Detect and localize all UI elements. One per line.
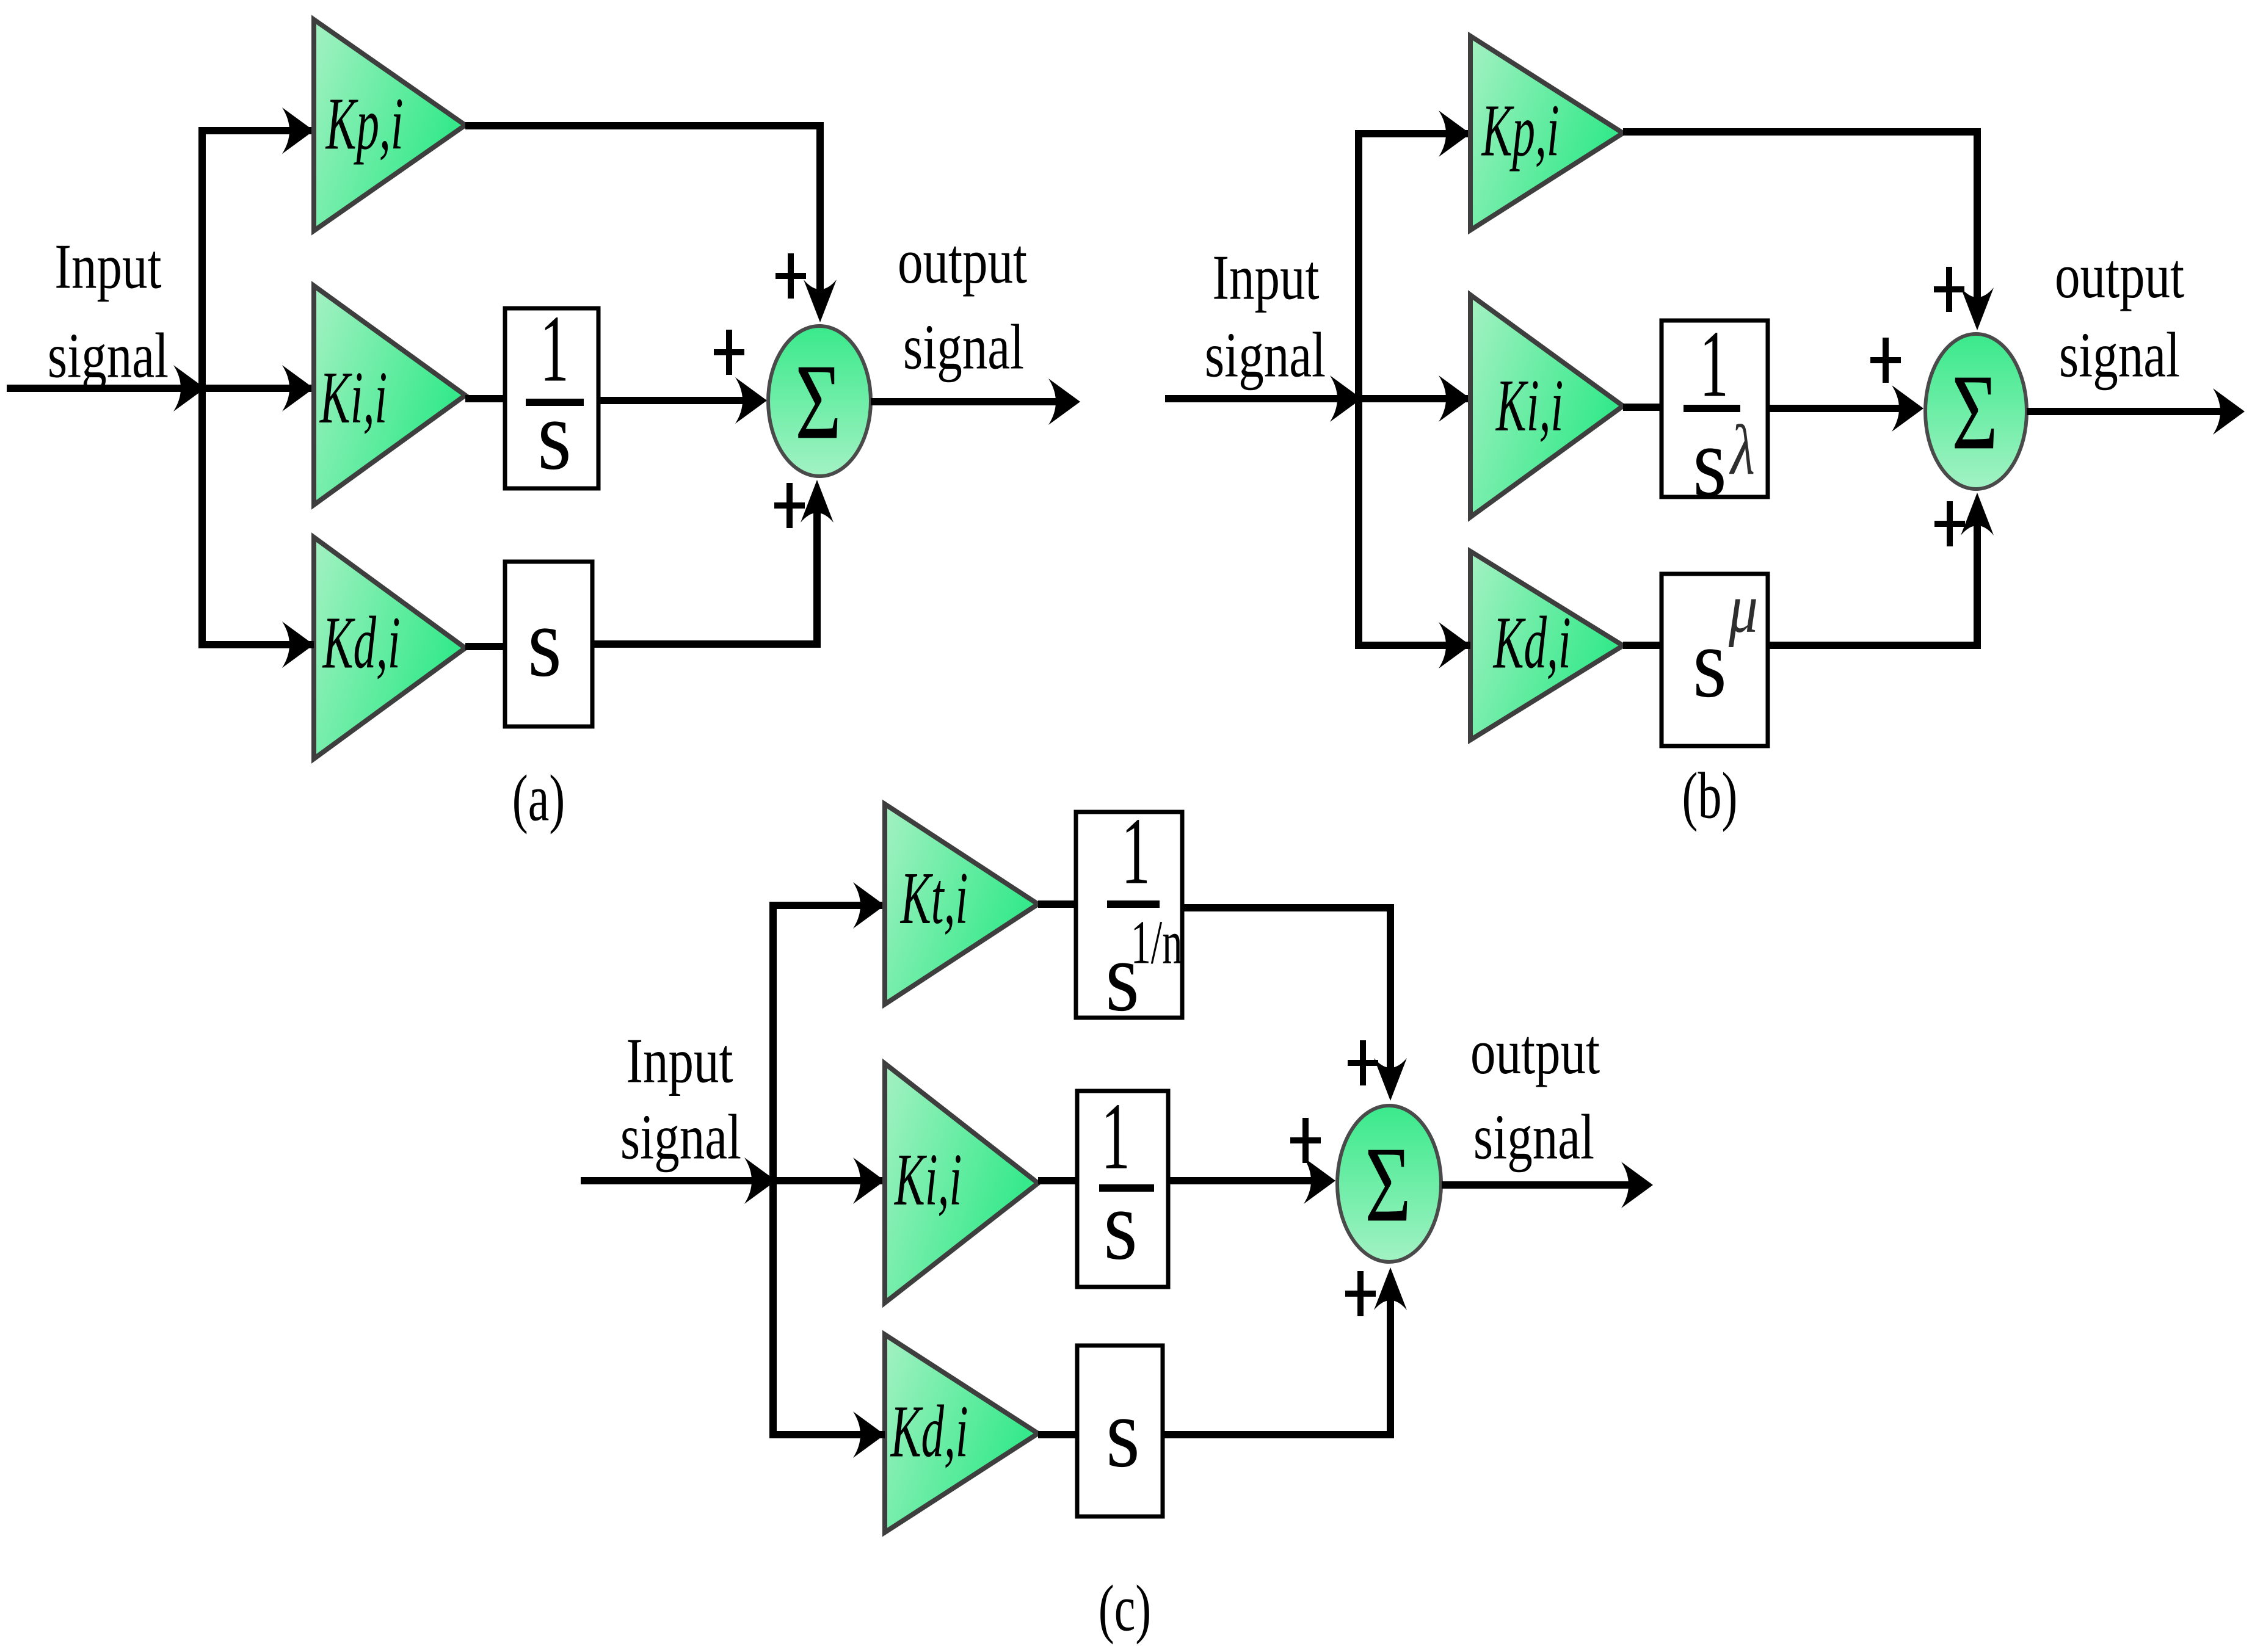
arrowhead: into gain Kd,i (a) [282,621,314,668]
label s of 1/s^lambda (b) [1693,407,1727,518]
svg-text:Input: Input [54,232,161,302]
wire: Kd,i to derivative box (b) [1623,642,1662,649]
svg-text:s: s [1106,1378,1140,1488]
arrowhead: into gain Kd,i (c) [853,1411,885,1458]
wire: bottom branch (a) [198,641,314,648]
wire: branch vertical (b) [1355,134,1362,645]
wire: s^mu to summer (b) [1768,515,1977,645]
svg-text:signal: signal [1205,321,1326,391]
svg-text:Σ: Σ [1365,1125,1411,1244]
svg-text:s: s [1693,608,1727,719]
svg-text:output: output [898,226,1027,297]
integrator block 1/s^lambda (b) [1662,321,1768,497]
plus sign top (a) [775,253,806,299]
arrowhead: into gain Kp,i (a) [282,107,314,154]
svg-text:output: output [1470,1017,1600,1087]
label 1 of 1/s^(1/n) (c) [1121,799,1150,905]
wire: 1/s^lambda to summer (b) [1768,405,1908,412]
svg-text:λ: λ [1729,410,1754,490]
label s of s-block (c) [1106,1378,1140,1488]
label lambda superscript (b) [1729,410,1754,490]
wire: output line (b) [2027,408,2229,415]
wire: bottom branch (c) [769,1431,885,1438]
node label: output signal (b) line1 [2055,241,2184,311]
gain triangle Kt,i (c) [885,804,1038,1004]
label 1 of 1/s (c) [1101,1084,1130,1190]
svg-text:Kd,i: Kd,i [322,601,401,684]
wire: output line (c) [1442,1181,1635,1189]
label 1 of 1/s (a) [540,297,568,402]
arrowhead: input into branch node (c) [744,1157,776,1204]
caption (a) [512,762,565,835]
gain triangle Kd,i (a) [314,537,465,759]
svg-text:signal: signal [48,321,169,391]
gain triangle Kp,i (a) [314,20,465,231]
node label: output signal (a) line1 [898,226,1027,297]
wire: 1/s to summer (a) [598,397,751,404]
wire: Kp,i to summer (a) [465,126,820,300]
svg-text:μ: μ [1728,569,1758,648]
fraction bar of 1/s^lambda (b) [1684,405,1740,412]
integrator block 1/s (c) [1077,1091,1168,1287]
svg-text:1/n: 1/n [1131,908,1183,977]
wire: input line (a) [7,385,314,392]
label 1 of 1/s^lambda (b) [1699,312,1728,418]
gain triangle Kp,i (b) [1470,36,1623,230]
gain triangle Kd,i (c) [885,1335,1038,1532]
svg-text:(b): (b) [1682,759,1738,832]
wire: 1/s to summer (c) [1168,1177,1318,1184]
wire: Kd,i to derivative box (c) [1038,1431,1077,1438]
wire: Kp,i to summer (b) [1623,132,1977,308]
label Kp,i (b) [1481,89,1560,172]
node label: output signal (b) line2 [2059,321,2180,391]
arrowhead: into gain Kt,i (c) [853,882,885,929]
label Kd,i (b) [1492,601,1571,684]
arrowhead: down into summer top (b) [1961,288,1994,330]
svg-text:(a): (a) [512,762,565,835]
arrowhead: output (a) [1048,379,1080,425]
svg-text:Input: Input [1212,243,1319,313]
svg-text:Ki,i: Ki,i [319,357,387,439]
svg-text:s: s [537,380,572,491]
svg-text:Kd,i: Kd,i [890,1390,968,1473]
wire: branch vertical (c) [769,905,777,1435]
gain triangle Ki,i (b) [1470,295,1623,517]
arrowhead: up into summer bottom (a) [801,480,834,523]
caption (c) [1099,1572,1152,1645]
svg-text:s: s [1103,1170,1138,1281]
svg-text:Ki,i: Ki,i [1495,364,1563,447]
summing junction (a) [768,326,871,476]
integrator block 1/s (a) [505,308,598,488]
arrowhead: up into summer bottom (c) [1374,1267,1407,1310]
gain triangle Ki,i (a) [314,286,465,505]
svg-text:Kp,i: Kp,i [325,82,404,165]
label mu superscript (b) [1728,569,1758,648]
plus sign bottom (c) [1345,1271,1376,1316]
derivative block s^mu (b) [1662,574,1768,746]
svg-text:Σ: Σ [1952,352,1998,472]
arrowhead: into gain Ki,i (b) [1439,375,1470,422]
plus sign top (c) [1348,1040,1378,1085]
node label: output signal (a) line2 [903,313,1024,383]
plus sign bottom (a) [774,483,805,528]
node label: Input signal (b) line2 [1205,321,1326,391]
arrowhead: into summer left (c) [1304,1157,1335,1204]
wire: bottom branch (b) [1355,642,1470,649]
node label: Input signal (a) line2 [48,321,169,391]
wire: 1/s^(1/n) to summer (c) [1182,908,1390,1079]
arrowhead: into summer left (a) [735,377,767,424]
svg-text:1: 1 [1121,799,1150,905]
label Ki,i (a) [319,357,387,439]
label Kt,i (c) [899,857,968,940]
svg-text:Ki,i: Ki,i [893,1139,962,1221]
arrowhead: output (c) [1621,1162,1653,1208]
label Kp,i (a) [325,82,404,165]
gain triangle Ki,i (c) [885,1063,1038,1303]
label Kd,i (a) [322,601,401,684]
node label: Input signal (c) line1 [626,1026,733,1096]
derivative block s (c) [1077,1346,1163,1516]
svg-text:Kd,i: Kd,i [1492,601,1571,684]
node label: Input signal (a) line1 [54,232,161,302]
label s of 1/s (c) [1103,1170,1138,1281]
arrowhead: down into summer top (c) [1374,1058,1407,1101]
plus sign left (b) [1870,338,1901,383]
summing junction (b) [1925,334,2027,489]
arrowhead: up into summer bottom (b) [1961,493,1994,535]
svg-text:(c): (c) [1099,1572,1152,1645]
plus sign left (a) [714,330,744,375]
node label: Input signal (b) line1 [1212,243,1319,313]
wire: output line (a) [871,398,1062,405]
label Ki,i (c) [893,1139,962,1221]
svg-text:Input: Input [626,1026,733,1096]
arrowhead: into gain Ki,i (c) [853,1157,885,1204]
gain triangle Kd,i (b) [1470,551,1623,740]
wire: Ki,i to integrator box (a) [465,395,505,402]
label Kd,i (c) [890,1390,968,1473]
fraction bar of 1/s (a) [526,399,584,406]
label s of s-block (a) [528,587,562,698]
svg-text:1: 1 [1699,312,1728,418]
label s of s^mu (b) [1693,608,1727,719]
svg-text:Kp,i: Kp,i [1481,89,1560,172]
svg-text:signal: signal [903,313,1024,383]
svg-text:signal: signal [620,1103,741,1173]
svg-text:Kt,i: Kt,i [899,857,968,940]
derivative block s (a) [505,562,592,726]
wire: Ki,i to integrator box (b) [1623,404,1662,411]
label s of 1/s^(1/n) (c) [1105,922,1139,1032]
wire: Kt,i to box (c) [1038,900,1076,908]
wire: top branch (a) [198,127,314,134]
arrowhead: into gain Ki,i (a) [282,365,314,411]
plus sign bottom (b) [1934,501,1965,546]
node label: Input signal (c) line2 [620,1103,741,1173]
caption (b) [1682,759,1738,832]
wire: top branch (b) [1355,130,1470,137]
wire: input line (c) [581,1177,885,1184]
arrowhead: input into branch node (b) [1330,375,1362,422]
arrowhead: into summer left (b) [1892,385,1923,432]
svg-text:signal: signal [2059,321,2180,391]
label s of 1/s (a) [537,380,572,491]
block 1/s^(1/n) (c) [1076,812,1182,1018]
wire: branch vertical (a) [198,131,206,645]
wire: input line (b) [1165,395,1470,402]
label 1/n superscript (c) [1131,908,1183,977]
fraction bar of 1/s (c) [1099,1184,1154,1192]
svg-text:output: output [2055,241,2184,311]
arrowhead: down into summer top (a) [804,280,837,322]
arrowhead: input into branch node (a) [173,365,205,411]
svg-text:s: s [1693,407,1727,518]
fraction bar of 1/s^(1/n) (c) [1107,900,1160,908]
wire: Ki,i to integrator box (c) [1038,1177,1077,1184]
wire: s-block to summer (c) [1163,1289,1390,1435]
plus sign left (c) [1290,1118,1321,1163]
wire: Kd,i to derivative box (a) [465,643,505,650]
svg-text:s: s [528,587,562,698]
plus sign top (b) [1934,267,1964,312]
svg-text:Σ: Σ [795,342,841,462]
arrowhead: into gain Kd,i (b) [1439,622,1470,668]
label Ki,i (b) [1495,364,1563,447]
arrowhead: output (b) [2213,388,2245,435]
svg-text:signal: signal [1473,1103,1594,1173]
node label: output signal (c) line1 [1470,1017,1600,1087]
summing junction (c) [1337,1106,1441,1262]
wire: s-block to summer (a) [592,502,817,644]
wire: top branch (c) [769,902,885,909]
node label: output signal (c) line2 [1473,1103,1594,1173]
arrowhead: into gain Kp,i (b) [1439,110,1470,157]
